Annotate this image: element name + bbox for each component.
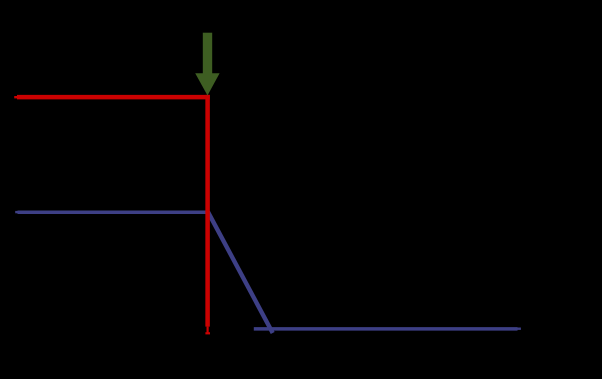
blue diagonal line <box>208 212 273 333</box>
green down arrow <box>195 33 219 96</box>
blue upper horizontal line <box>15 211 209 213</box>
red vertical line <box>205 95 210 335</box>
red horizontal line <box>14 96 210 98</box>
blue lower horizontal line <box>254 328 521 330</box>
